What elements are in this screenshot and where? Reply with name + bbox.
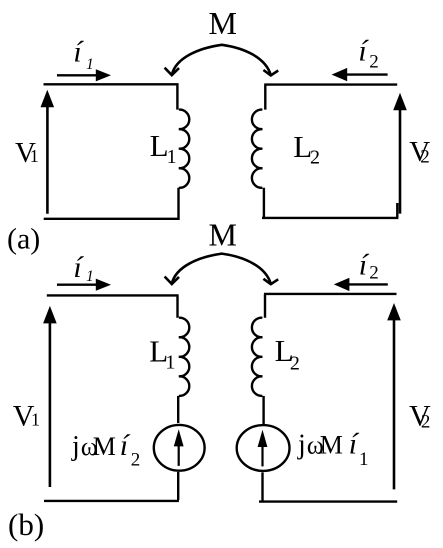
label L2 (figure b) (275, 333, 300, 375)
svg-text:1: 1 (86, 56, 94, 73)
voltage arrow V1 (figure b) (43, 306, 57, 487)
wire: bottom conductor of right loop (figure a) (262, 188, 398, 218)
svg-text:M: M (320, 431, 343, 460)
wire: bottom conductor of left loop (figure a) (44, 188, 180, 219)
current label i2 (figure a) (358, 35, 378, 73)
inductor L1 (figure b) (179, 318, 189, 396)
current source jwMi1 (figure b) (237, 396, 290, 471)
svg-text:í: í (120, 429, 131, 462)
current arrow i1 (figure b) (57, 279, 111, 291)
svg-text:1: 1 (30, 146, 39, 166)
svg-text:2: 2 (421, 411, 431, 432)
svg-text:í: í (358, 35, 369, 68)
current label i1 (figure b) (73, 251, 93, 285)
voltage arrow V1 (figure a) (41, 90, 55, 214)
svg-text:í: í (73, 251, 84, 284)
wire: bottom conductor of right loop (figure b) (259, 472, 397, 501)
current arrow i1 (figure a) (57, 69, 111, 81)
svg-text:(a): (a) (7, 223, 40, 256)
label V2 (figure a) (409, 136, 430, 168)
wire: top conductor of right loop (figure a) (264, 85, 397, 110)
wire: top conductor of right loop (figure b) (264, 294, 397, 318)
current arrow i2 (figure a) (332, 68, 388, 81)
mutual coupling arrow M (figure b) (165, 254, 279, 285)
svg-text:j: j (297, 430, 306, 461)
inductor L2 (figure a) (252, 110, 262, 188)
current label i2 (figure b) (359, 249, 379, 284)
label jwMi1 (figure b) (297, 428, 369, 470)
wire: top conductor of left loop (figure a) (44, 84, 179, 109)
label V1 (figure b) (13, 400, 40, 433)
label L1 (figure a) (150, 128, 177, 168)
label L2 (figure a) (293, 129, 320, 169)
svg-text:1: 1 (165, 352, 175, 374)
current arrow i2 (figure b) (334, 278, 388, 291)
wire: top conductor of left loop (figure b) (47, 295, 179, 317)
svg-text:1: 1 (31, 410, 40, 430)
svg-text:1: 1 (86, 268, 94, 285)
svg-text:M: M (93, 432, 116, 461)
svg-text:2: 2 (131, 449, 141, 470)
svg-text:2: 2 (420, 147, 430, 168)
label L1 (figure b) (149, 334, 175, 374)
label jwMi2 (figure b) (71, 429, 140, 470)
voltage arrow V2 (figure a) (393, 93, 407, 214)
svg-text:2: 2 (310, 147, 320, 169)
voltage arrow V2 (figure b) (387, 303, 401, 489)
inductor L2 (figure b) (252, 318, 262, 396)
label V1 (figure a) (15, 137, 39, 169)
current label i1 (figure a) (73, 36, 93, 74)
current source jwMi2 (figure b) (154, 396, 205, 471)
svg-text:(b): (b) (8, 507, 44, 542)
svg-text:í: í (359, 249, 370, 282)
svg-text:M: M (209, 216, 237, 252)
mutual coupling arrow M (figure a) (165, 45, 279, 76)
svg-text:j: j (71, 431, 80, 462)
svg-text:1: 1 (167, 146, 177, 168)
label V2 (figure b) (409, 400, 431, 433)
inductor L1 (figure a) (179, 110, 189, 188)
wire: bottom conductor of left loop (figure b) (44, 472, 179, 501)
svg-text:1: 1 (359, 449, 369, 470)
svg-text:2: 2 (290, 352, 300, 374)
svg-text:í: í (73, 36, 84, 69)
svg-text:2: 2 (369, 51, 379, 72)
svg-text:M: M (209, 5, 237, 41)
svg-text:2: 2 (369, 262, 379, 283)
